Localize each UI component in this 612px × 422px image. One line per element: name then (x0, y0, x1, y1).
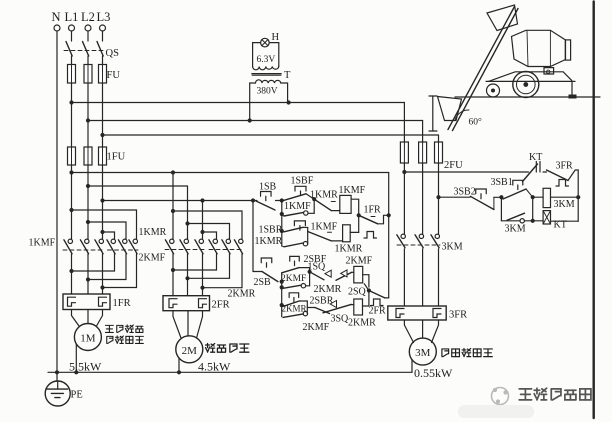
wire 1M phase U (69, 254, 114, 294)
wire 2FU L2 drop (422, 121, 424, 143)
wire rung2 left (281, 231, 283, 246)
wire 1FR to motor 1M (72, 310, 103, 327)
tap line L3 (100, 198, 281, 202)
svg-text:3FR: 3FR (556, 161, 574, 172)
limit switch 2SQ (348, 284, 369, 298)
transformer T secondary loop (253, 43, 279, 70)
motor 2M (176, 336, 203, 363)
contact 2KMF interlock (303, 304, 354, 333)
svg-text:1M: 1M (80, 333, 96, 345)
label fanzhuan daoliao (107, 336, 144, 343)
label 4.5kW (198, 360, 231, 374)
node rail 1FR (387, 213, 391, 217)
wire 1M phase V (86, 254, 126, 294)
svg-text:2KMF: 2KMF (139, 253, 166, 264)
tap line L1 (69, 170, 388, 174)
wire L2 below 1FU (87, 165, 89, 239)
coil 2KMF (346, 256, 373, 283)
svg-text:2FR: 2FR (369, 306, 387, 317)
label gongshui choushuibeng (442, 348, 492, 356)
contact 1KMF self-hold (282, 199, 314, 216)
bus L2 (86, 118, 423, 122)
svg-text:4.5kW: 4.5kW (198, 360, 231, 374)
wire 2M phase V (185, 254, 229, 296)
svg-text:3KM: 3KM (505, 224, 526, 235)
button 1SBR (259, 221, 306, 236)
contactor contacts 1KMF (29, 238, 105, 254)
node G (531, 195, 535, 199)
contactor contacts 3KM (397, 234, 463, 252)
svg-text:2FU: 2FU (444, 160, 463, 171)
wire L2 drop to QS (87, 31, 89, 41)
wire motor 3M to PE bus (411, 360, 413, 373)
terminal N (52, 10, 61, 31)
contact 1KMR interlock (310, 190, 338, 211)
svg-text:2M: 2M (182, 345, 198, 357)
wire cross L2 to 2KMR (185, 221, 229, 239)
contact 2FR (369, 291, 389, 317)
thermal overload 2FR (163, 296, 230, 311)
contactor contacts 2KMR (209, 239, 256, 299)
svg-text:3KM: 3KM (442, 242, 463, 253)
terminal L3 (97, 10, 111, 31)
wire L3 drop to QS (102, 31, 104, 41)
wire 2M L3 drop (202, 201, 204, 240)
transformer T core (252, 70, 291, 81)
svg-text:2SBR: 2SBR (310, 296, 334, 307)
wire 3M col3 (436, 163, 440, 234)
svg-text:1KMR: 1KMR (139, 227, 167, 238)
contact 1KMF interlock (308, 222, 338, 241)
button 2SB (253, 258, 278, 288)
svg-text:3SQ: 3SQ (331, 314, 350, 325)
watermark text dianli xuexi wang (519, 388, 591, 400)
wire coil 2KMF out (363, 275, 369, 287)
svg-text:2SQ: 2SQ (348, 287, 367, 298)
label 0.55kW (414, 366, 453, 380)
svg-text:6.3V: 6.3V (257, 55, 276, 65)
svg-text:3KM: 3KM (554, 199, 575, 210)
fuse FU (68, 65, 121, 84)
svg-text:1FR: 1FR (113, 298, 131, 309)
contact 2KMF self-hold (281, 268, 310, 289)
fuse 2FU (400, 142, 463, 171)
switch QS (64, 42, 119, 60)
svg-text:1KMR: 1KMR (255, 236, 283, 247)
node E (367, 288, 371, 292)
PE bus (48, 370, 412, 374)
svg-text:FU: FU (107, 70, 121, 81)
button 2SBR (283, 293, 334, 307)
border line right (593, 2, 595, 419)
button 1SBF (282, 176, 314, 201)
svg-text:L2: L2 (81, 10, 95, 24)
contact KT delay (523, 152, 543, 182)
svg-text:L3: L3 (97, 10, 111, 24)
svg-text:60°: 60° (469, 117, 483, 128)
control rail right (388, 173, 390, 298)
svg-text:1SB: 1SB (259, 182, 277, 193)
svg-text:1KMF: 1KMF (284, 201, 311, 212)
contactor contacts 2KMF (165, 239, 205, 254)
watermark logo (458, 388, 534, 419)
contactor contacts 1KMR (107, 227, 167, 254)
svg-text:3FR: 3FR (449, 310, 467, 321)
svg-text:2KMF: 2KMF (346, 256, 373, 267)
wire cross L3 to 1KMR (100, 230, 114, 239)
svg-text:2FR: 2FR (212, 300, 230, 311)
svg-text:380V: 380V (257, 87, 278, 97)
wire cross L3 to 2KMR (200, 230, 216, 239)
contact 2KMR interlock (314, 270, 354, 295)
wire cross L2 to 1KMR (86, 220, 126, 239)
ground PE (45, 381, 83, 406)
wire N vertical (56, 31, 58, 381)
wire 3M col1 (402, 163, 406, 234)
wire L1 drop to QS (71, 31, 73, 41)
limit switch 1SQ (308, 262, 332, 280)
svg-text:2SB: 2SB (254, 277, 272, 288)
svg-text:2KMF: 2KMF (281, 274, 306, 284)
svg-text:QS: QS (106, 48, 120, 59)
svg-text:1FR: 1FR (364, 205, 382, 216)
svg-text:2KMR: 2KMR (314, 284, 342, 295)
bus L1 (69, 100, 404, 104)
button 3SB2 (454, 187, 502, 210)
svg-text:3SB1: 3SB1 (491, 177, 513, 188)
label 5.5kW (69, 360, 102, 374)
lamp H (261, 32, 280, 47)
wire node A down (280, 201, 284, 232)
wire KT top line (404, 171, 528, 173)
button 1SB (256, 182, 277, 211)
svg-text:1KMF: 1KMF (339, 185, 366, 196)
svg-text:5.5kW: 5.5kW (69, 360, 102, 374)
tap line L2 (86, 184, 188, 239)
svg-text:PE: PE (71, 390, 83, 401)
wire 3KM to 3FR (404, 249, 438, 306)
svg-text:1KMR: 1KMR (335, 244, 363, 255)
terminal L1 (65, 10, 79, 31)
svg-text:1SBF: 1SBF (291, 176, 314, 187)
wire L1 below 1FU (71, 165, 73, 239)
motor 1M (74, 324, 101, 351)
svg-text:2KMR: 2KMR (282, 304, 307, 314)
svg-text:1KMF: 1KMF (29, 238, 56, 249)
svg-text:1KMF: 1KMF (311, 222, 338, 233)
button 2SBF (282, 254, 327, 282)
wire 3FR to motor 3M (404, 320, 438, 343)
svg-text:1KMR: 1KMR (310, 190, 338, 201)
coil 3KM (533, 188, 581, 210)
coil 2KMR (348, 291, 376, 329)
contact 1KMR self-hold (255, 227, 308, 247)
label zhengzhuan jiaoban (105, 325, 142, 332)
svg-text:KT: KT (529, 152, 542, 163)
node F (499, 195, 503, 199)
node C (280, 280, 284, 284)
transformer T primary (250, 80, 288, 121)
fuse 1FU (68, 147, 126, 165)
wire control drop (252, 201, 254, 272)
coil 1KMF (331, 185, 365, 213)
wire 1M phase W (100, 254, 136, 294)
wire L1 to bus (71, 83, 73, 147)
wire 3M col2 (422, 163, 424, 234)
coil KT (533, 211, 579, 231)
wire L3 below 1FU (102, 165, 104, 239)
wire 2M phase U (171, 254, 217, 296)
svg-text:L1: L1 (65, 10, 79, 24)
svg-text:N: N (52, 10, 61, 24)
button 3SB1 (491, 177, 533, 199)
wire QS to FU (72, 56, 103, 65)
node A (280, 198, 284, 202)
thermal overload 3FR (388, 306, 467, 321)
wire 3M rung feed (439, 196, 471, 198)
wire 2FU L1 drop (403, 103, 405, 143)
svg-text:1SQ: 1SQ (308, 262, 327, 273)
mixer machine illustration (429, 5, 600, 131)
svg-text:T: T (284, 70, 291, 81)
wire 2M phase W (200, 254, 242, 296)
wire cross L1 to 2KMR (171, 209, 242, 239)
node D (308, 270, 312, 274)
wire cross L1 to 1KMR (69, 208, 136, 239)
wire 2FU L3 drop (438, 135, 440, 142)
svg-text:3SB2: 3SB2 (454, 187, 476, 198)
terminal L2 (81, 10, 95, 31)
contact 3KM self-hold (501, 197, 534, 234)
bus L3 (100, 133, 438, 137)
wire 2FR to motor 2M (173, 311, 203, 338)
wire rung5 left (280, 285, 284, 316)
thermal overload 1FR (63, 294, 131, 310)
limit switch 3SQ (307, 301, 349, 325)
coil 1KMR (331, 225, 362, 255)
wire motor 1M to PE bus (75, 344, 77, 372)
contact 3FR (543, 161, 578, 187)
svg-text:3M: 3M (415, 347, 431, 359)
svg-text:1FU: 1FU (107, 152, 126, 163)
svg-text:2KMR: 2KMR (348, 318, 376, 329)
label 2KMF group (139, 253, 166, 264)
svg-text:2KMR: 2KMR (228, 289, 256, 300)
node B (312, 197, 316, 201)
svg-text:1SBR: 1SBR (259, 225, 283, 236)
contact 2KMR self-hold (282, 301, 308, 317)
label jinliao shengjiang (206, 344, 249, 353)
svg-text:0.55kW: 0.55kW (414, 366, 453, 380)
svg-text:H: H (272, 32, 280, 43)
wire motor 2M to PE bus (178, 358, 180, 372)
contact 1FR (359, 205, 389, 239)
node rung2 (280, 229, 284, 233)
svg-text:KT: KT (554, 220, 567, 231)
wire coil 1KMF out (351, 199, 361, 232)
control rail 3M (577, 170, 579, 221)
wire L2 to bus (87, 83, 89, 147)
wire 2M L1 drop (172, 173, 174, 240)
wire L3 to bus (102, 83, 104, 147)
svg-text:2KMF: 2KMF (303, 322, 330, 333)
motor 3M (409, 338, 436, 365)
